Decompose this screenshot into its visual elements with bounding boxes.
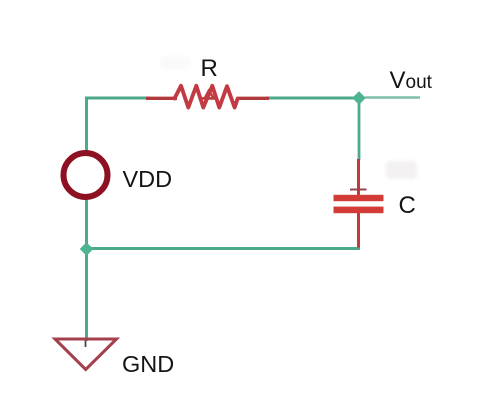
svg-text:R: R <box>201 55 218 82</box>
capacitor C polarity plus mark <box>350 189 367 191</box>
resistor R right lead (red) <box>237 97 270 100</box>
resistor R zigzag <box>175 86 238 108</box>
voltage source VDD (circle) <box>64 153 108 197</box>
capacitor C bottom plate <box>334 207 384 214</box>
wire: top horizontal, left segment to resistor <box>85 97 150 100</box>
svg-text:Vout: Vout <box>390 67 433 94</box>
resistor R zigzag overdraw caret (hand-drawn double stroke) <box>205 90 214 99</box>
svg-text:C: C <box>399 192 416 219</box>
ground symbol GND (triangle) <box>55 339 117 370</box>
resistor R overdraw center segment <box>201 97 217 100</box>
ground stub (dark remnant below triangle top edge) <box>85 340 87 347</box>
wire: capacitor top lead (green part below node) <box>358 100 361 160</box>
capacitor C top plate <box>334 195 384 201</box>
resistor R left lead (red) <box>146 97 177 100</box>
capacitor C bottom lead (red) <box>357 213 360 248</box>
capacitor C top lead (red) <box>357 159 360 196</box>
wire: top horizontal, resistor to Vout node <box>266 97 359 100</box>
svg-text:GND: GND <box>122 351 174 377</box>
node Vout (junction dot, diamond) <box>352 91 366 105</box>
node A (bottom junction dot, diamond) <box>80 242 94 256</box>
svg-text:VDD: VDD <box>123 166 173 192</box>
wire: left vertical (VDD branch, top corner down to GND) <box>85 97 88 341</box>
faint erase artifact near capacitor <box>386 161 417 179</box>
faint erase artifact near R label <box>160 56 190 70</box>
wire: bottom horizontal from junction to capacitor bottom <box>87 247 361 250</box>
wire: lighter stub right of Vout node <box>365 96 420 99</box>
